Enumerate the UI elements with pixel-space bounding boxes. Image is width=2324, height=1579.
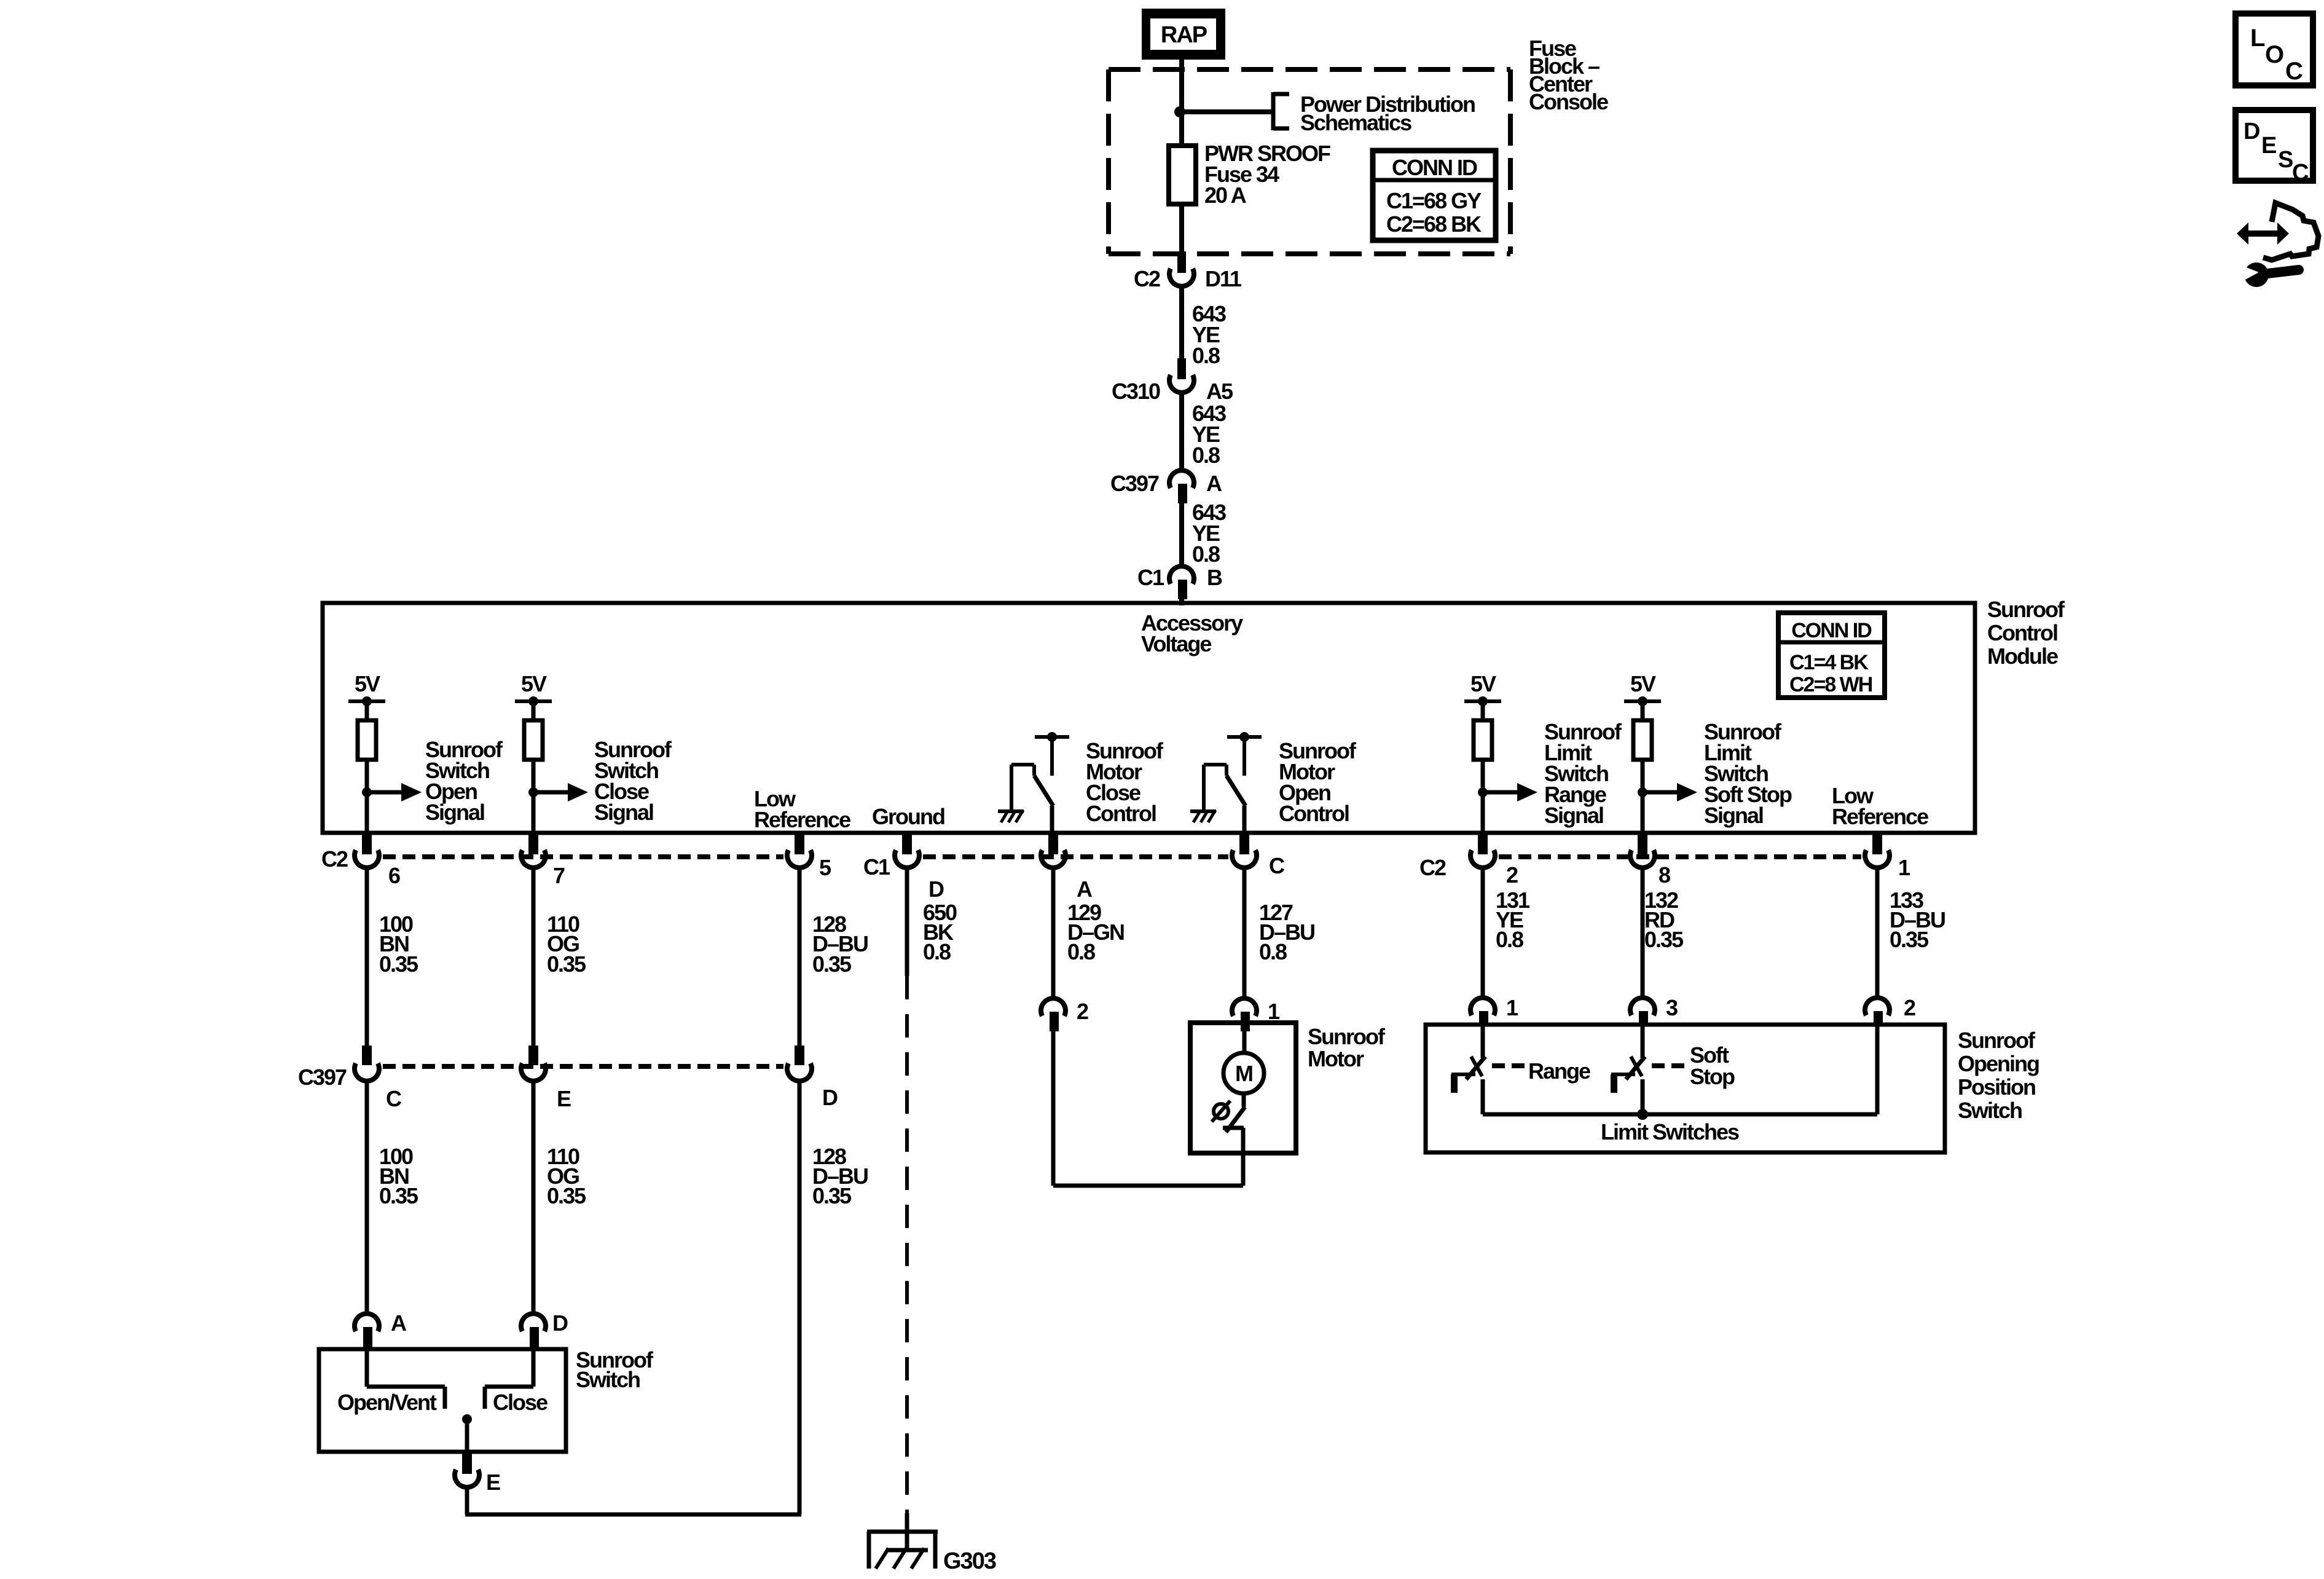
svg-text:RAP: RAP	[1161, 22, 1207, 48]
svg-text:S: S	[2278, 147, 2293, 173]
svg-text:0.8: 0.8	[1496, 927, 1523, 952]
svg-text:CONN ID: CONN ID	[1791, 619, 1872, 642]
svg-text:0.8: 0.8	[923, 939, 951, 964]
svg-text:A: A	[1077, 876, 1093, 902]
svg-text:Signal: Signal	[1704, 803, 1763, 828]
svg-text:Ground: Ground	[872, 804, 944, 829]
svg-text:20 A: 20 A	[1204, 183, 1247, 208]
svg-text:C2=8 WH: C2=8 WH	[1789, 673, 1872, 696]
svg-text:D: D	[928, 876, 944, 902]
svg-text:Opening: Opening	[1958, 1051, 2039, 1076]
svg-text:Switch: Switch	[1958, 1098, 2022, 1123]
svg-text:8: 8	[1659, 862, 1670, 888]
svg-text:D: D	[822, 1085, 838, 1110]
svg-text:A5: A5	[1206, 379, 1233, 404]
svg-text:0.35: 0.35	[547, 1183, 586, 1208]
svg-text:0.8: 0.8	[1192, 541, 1220, 567]
svg-text:Control: Control	[1086, 801, 1156, 826]
svg-text:Sunroof: Sunroof	[1308, 1024, 1386, 1049]
svg-text:C1: C1	[863, 854, 890, 880]
svg-text:Sunroof: Sunroof	[1958, 1028, 2036, 1053]
svg-text:M: M	[1235, 1061, 1252, 1086]
svg-text:Open/Vent: Open/Vent	[337, 1390, 437, 1415]
svg-text:E: E	[2261, 133, 2276, 159]
svg-text:Switch: Switch	[576, 1367, 640, 1392]
svg-text:C397: C397	[1110, 471, 1159, 496]
svg-text:0.8: 0.8	[1067, 939, 1095, 964]
svg-text:0.35: 0.35	[547, 951, 586, 977]
svg-text:0.35: 0.35	[379, 951, 418, 977]
svg-text:5V: 5V	[355, 671, 380, 696]
svg-text:5: 5	[819, 855, 831, 880]
svg-text:0.35: 0.35	[812, 951, 852, 977]
svg-text:D11: D11	[1205, 266, 1242, 291]
svg-text:Schematics: Schematics	[1300, 110, 1411, 135]
svg-text:C: C	[2292, 160, 2309, 186]
svg-text:5V: 5V	[1470, 671, 1496, 696]
svg-text:Console: Console	[1529, 89, 1608, 114]
svg-text:Module: Module	[1987, 644, 2058, 669]
svg-text:1: 1	[1898, 855, 1910, 880]
svg-text:1: 1	[1268, 999, 1280, 1024]
svg-text:Motor: Motor	[1308, 1046, 1364, 1071]
svg-text:1: 1	[1506, 995, 1518, 1020]
svg-text:D: D	[552, 1310, 568, 1336]
svg-text:A: A	[391, 1310, 407, 1336]
svg-text:3: 3	[1666, 995, 1678, 1020]
svg-text:Voltage: Voltage	[1141, 631, 1211, 656]
svg-text:0.35: 0.35	[379, 1183, 418, 1208]
svg-text:C: C	[2285, 58, 2302, 85]
svg-text:C310: C310	[1112, 379, 1160, 404]
svg-text:C1=4 BK: C1=4 BK	[1789, 651, 1869, 674]
svg-text:CONN ID: CONN ID	[1392, 155, 1477, 180]
svg-text:5V: 5V	[521, 671, 547, 696]
svg-text:C2: C2	[1134, 266, 1160, 291]
svg-text:Limit Switches: Limit Switches	[1601, 1119, 1739, 1144]
svg-text:7: 7	[553, 863, 565, 888]
svg-text:L: L	[2250, 25, 2265, 52]
svg-text:C1=68 GY: C1=68 GY	[1386, 188, 1482, 213]
svg-text:G303: G303	[943, 1548, 996, 1574]
svg-text:2: 2	[1904, 995, 1915, 1020]
svg-text:D: D	[2244, 119, 2259, 144]
svg-text:B: B	[1207, 565, 1222, 590]
svg-text:Reference: Reference	[1832, 804, 1928, 829]
svg-text:6: 6	[388, 863, 400, 888]
svg-text:0.35: 0.35	[812, 1183, 852, 1208]
svg-text:Signal: Signal	[594, 800, 653, 825]
svg-text:Stop: Stop	[1690, 1064, 1735, 1089]
svg-text:Position: Position	[1958, 1074, 2035, 1100]
svg-text:2: 2	[1506, 862, 1518, 888]
svg-text:Close: Close	[493, 1390, 548, 1415]
svg-text:0.8: 0.8	[1259, 939, 1287, 964]
svg-text:Reference: Reference	[754, 807, 850, 832]
svg-text:O: O	[2265, 41, 2283, 68]
svg-text:0.35: 0.35	[1644, 927, 1684, 952]
svg-text:E: E	[486, 1470, 500, 1495]
svg-text:A: A	[1206, 471, 1222, 496]
svg-text:5V: 5V	[1630, 671, 1656, 696]
svg-text:0.8: 0.8	[1192, 343, 1220, 368]
svg-text:Control: Control	[1279, 801, 1349, 826]
svg-text:C: C	[386, 1086, 402, 1111]
svg-text:C2: C2	[1419, 855, 1446, 880]
svg-text:0.35: 0.35	[1890, 927, 1929, 952]
svg-text:C1: C1	[1137, 565, 1164, 590]
svg-text:0.8: 0.8	[1192, 443, 1220, 468]
svg-text:C2: C2	[321, 846, 348, 872]
svg-text:Control: Control	[1987, 620, 2057, 645]
svg-text:Range: Range	[1528, 1058, 1590, 1084]
svg-text:Sunroof: Sunroof	[1987, 597, 2065, 622]
svg-text:Signal: Signal	[425, 800, 484, 825]
svg-text:E: E	[557, 1086, 571, 1111]
svg-text:C: C	[1269, 853, 1285, 878]
svg-text:C2=68 BK: C2=68 BK	[1386, 211, 1482, 237]
svg-text:Signal: Signal	[1544, 803, 1603, 828]
svg-text:2: 2	[1077, 999, 1088, 1024]
svg-text:C397: C397	[298, 1065, 347, 1090]
